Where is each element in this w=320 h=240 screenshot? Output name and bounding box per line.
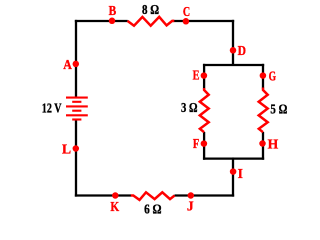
svg-text:K: K bbox=[110, 199, 119, 214]
node C dot bbox=[183, 18, 190, 25]
node B dot bbox=[109, 18, 116, 25]
svg-text:J: J bbox=[187, 199, 194, 214]
battery 12V plate long 2 bbox=[66, 105, 88, 107]
node G dot bbox=[260, 72, 267, 79]
svg-text:L: L bbox=[62, 142, 71, 157]
svg-text:H: H bbox=[268, 137, 279, 152]
wire right branch bottom stub (5-ohm resistor through H to bottom bar) bbox=[262, 132, 264, 160]
node J dot bbox=[188, 192, 195, 199]
svg-text:A: A bbox=[63, 57, 72, 72]
svg-text:G: G bbox=[269, 69, 277, 84]
wire left branch top stub (bar to E to 3-ohm resistor) bbox=[203, 64, 205, 89]
node E dot bbox=[201, 72, 208, 79]
node I dot bbox=[230, 168, 237, 175]
wire top-left horizontal (corner A-side to resistor R1) bbox=[75, 20, 128, 22]
svg-text:C: C bbox=[183, 4, 190, 19]
wire bottom bar of parallel section bbox=[203, 157, 264, 159]
wire right branch top stub (bar to G to 5-ohm resistor) bbox=[262, 64, 264, 89]
wire left branch bottom stub (3-ohm resistor through F to bottom bar) bbox=[203, 132, 205, 160]
svg-text:F: F bbox=[193, 136, 199, 151]
wire right vertical (corner through D to split bar) bbox=[232, 20, 234, 65]
svg-text:12 V: 12 V bbox=[42, 100, 62, 115]
wire split bar top of parallel section bbox=[203, 64, 264, 66]
svg-text:I: I bbox=[238, 166, 243, 181]
node A dot bbox=[73, 61, 80, 68]
svg-text:E: E bbox=[193, 68, 200, 83]
svg-text:B: B bbox=[109, 3, 117, 18]
wire left vertical lower (battery bottom through L to corner) bbox=[75, 120, 77, 196]
svg-text:6 Ω: 6 Ω bbox=[144, 201, 162, 216]
wire bottom-right horizontal (resistor R3 through J to corner below I) bbox=[175, 194, 235, 196]
wire bottom-left horizontal (corner through K to resistor R3) bbox=[75, 194, 131, 196]
svg-text:D: D bbox=[238, 43, 247, 58]
resistor 3-ohm vertical zigzag between E and F bbox=[200, 88, 209, 132]
resistor 6-ohm zigzag between K and J bbox=[131, 192, 175, 200]
wire top-right horizontal (resistor R1 to corner above D) bbox=[173, 20, 235, 22]
node F dot bbox=[201, 140, 208, 147]
node L dot bbox=[73, 145, 80, 152]
battery 12V plate long 3 bbox=[66, 114, 88, 116]
battery 12V plate short 3 bbox=[72, 118, 81, 120]
wire left vertical upper (corner to battery top) bbox=[75, 20, 77, 97]
svg-text:8 Ω: 8 Ω bbox=[142, 2, 159, 17]
wire center stub (bottom bar through I to bottom wire) bbox=[232, 157, 234, 196]
battery 12V plate short 2 bbox=[72, 110, 81, 112]
svg-text:3 Ω: 3 Ω bbox=[181, 100, 198, 115]
node H dot bbox=[259, 140, 266, 147]
node K dot bbox=[112, 192, 119, 199]
resistor 8-ohm zigzag between B and C bbox=[128, 17, 175, 26]
svg-text:5 Ω: 5 Ω bbox=[270, 102, 287, 117]
resistor 5-ohm vertical zigzag between G and H bbox=[259, 88, 268, 133]
battery 12V plate long 1 bbox=[66, 97, 88, 99]
battery 12V plate short 1 bbox=[72, 101, 81, 103]
node D dot bbox=[230, 47, 237, 54]
